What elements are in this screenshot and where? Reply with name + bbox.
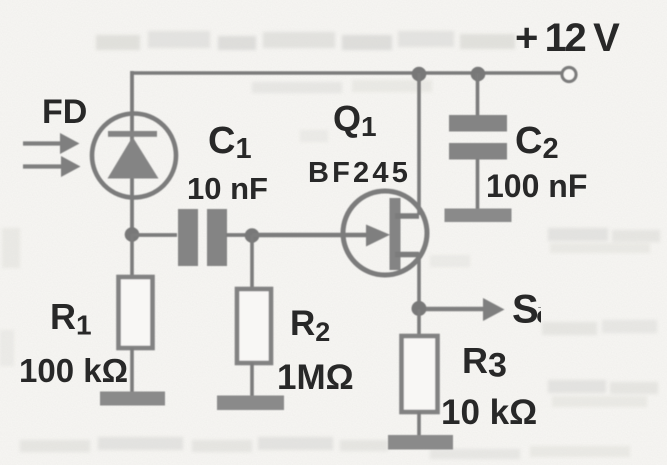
ground R3 (388, 435, 453, 450)
wire drain to rail (417, 73, 421, 215)
resistor R1 (119, 234, 153, 392)
resistor R2 (237, 235, 271, 396)
label R1 (50, 296, 92, 341)
value 10 kOhm (441, 393, 537, 432)
node S junction dot (source / R3 / output) (412, 301, 427, 316)
output arrow S (426, 298, 505, 321)
wire C1 to node B (226, 233, 252, 237)
value 100 kOhm (19, 352, 128, 389)
wire node A to C1 (132, 233, 177, 237)
value 1MOhm (277, 358, 354, 397)
label FD (42, 93, 87, 131)
ground R2 (217, 396, 284, 411)
photodiode FD (92, 114, 176, 198)
wire source down to node S (417, 253, 421, 309)
value 100 nF (486, 168, 587, 204)
value 10 nF (187, 171, 268, 206)
label R2 (290, 304, 330, 347)
label +12V (515, 16, 620, 60)
svg-text:10 nF: 10 nF (187, 171, 268, 206)
capacitor C1 (178, 209, 227, 266)
ground R1 (100, 392, 165, 406)
label C1 (208, 120, 252, 165)
wire gate (node B to Q1 gate arrow) (252, 225, 390, 247)
node B junction dot (C1 / R2 / gate) (245, 228, 260, 243)
ground C2 (445, 209, 512, 223)
resistor R3 (402, 309, 438, 436)
svg-text:1MΩ: 1MΩ (277, 358, 354, 397)
node A junction dot (FD / R1 / C1) (125, 227, 140, 242)
svg-text:100 nF: 100 nF (486, 168, 587, 204)
label R3 (462, 340, 507, 385)
svg-text:BF245: BF245 (308, 157, 411, 189)
wire +12V rail (132, 71, 566, 75)
label Q1 (333, 98, 377, 142)
terminal +12V open circle (562, 68, 576, 82)
svg-text:+ 12 V: + 12 V (515, 16, 620, 60)
svg-text:R3: R3 (462, 340, 507, 385)
label C2 (515, 120, 559, 165)
capacitor C2 (449, 73, 507, 209)
light arrow 1 into FD (23, 133, 80, 154)
wire photodiode cathode (vertical, rail to node A) (130, 71, 134, 234)
svg-text:100 kΩ: 100 kΩ (19, 352, 128, 389)
transistor Q1 (JFET BF245) (343, 191, 427, 275)
svg-text:FD: FD (42, 93, 87, 131)
label S output (512, 288, 559, 332)
svg-text:10 kΩ: 10 kΩ (441, 393, 537, 432)
node junction dot C2/rail (471, 67, 486, 82)
value BF245 (308, 157, 411, 189)
light arrow 2 into FD (23, 156, 81, 177)
node junction dot drain/rail (412, 67, 427, 82)
svg-text:S: S (512, 288, 539, 332)
